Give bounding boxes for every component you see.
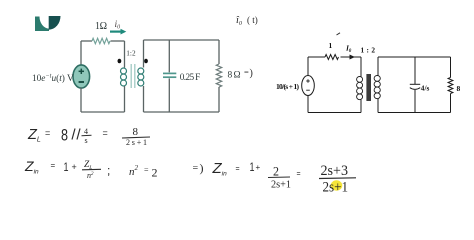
svg-text:0.25 F: 0.25 F bbox=[180, 73, 201, 83]
svg-text:): ) bbox=[250, 68, 253, 79]
svg-text:=: = bbox=[297, 171, 301, 178]
wire: s-right loop bottom bbox=[378, 112, 451, 114]
wire: s-primary top lead bbox=[360, 57, 362, 77]
wire: secondary top lead bbox=[143, 40, 145, 68]
wire: left loop top-right segment bbox=[111, 40, 125, 42]
svg-text:=: = bbox=[103, 128, 108, 138]
svg-text:+: + bbox=[72, 162, 77, 172]
svg-text:4/s: 4/s bbox=[421, 84, 430, 93]
svg-text:I0: I0 bbox=[345, 44, 352, 54]
handwritten parallel bars bbox=[72, 129, 80, 140]
s-transformer core bar bbox=[366, 74, 371, 101]
wire: s-left loop left (upper) bbox=[307, 57, 309, 76]
resistor 1 ohm (left circuit, zigzag) bbox=[92, 38, 110, 43]
current arrow i0 (teal) bbox=[110, 29, 126, 35]
svg-text:Zin: Zin bbox=[212, 160, 228, 178]
wire: primary top lead bbox=[124, 41, 126, 68]
svg-text:1 : 2: 1 : 2 bbox=[361, 46, 376, 55]
svg-text:=: = bbox=[236, 166, 240, 173]
handwritten n^2 = 2 bbox=[129, 164, 158, 180]
svg-text:2: 2 bbox=[152, 166, 158, 180]
wire: secondary bottom lead bbox=[143, 86, 145, 112]
svg-text:4: 4 bbox=[84, 127, 88, 136]
svg-text:8 Ω: 8 Ω bbox=[228, 70, 241, 80]
svg-text:2: 2 bbox=[273, 165, 279, 179]
transformer core bbox=[131, 64, 135, 88]
svg-text:s: s bbox=[85, 136, 88, 145]
svg-text:8: 8 bbox=[457, 84, 461, 93]
capacitor 0.25 F bbox=[163, 73, 176, 77]
wire: s-capacitor branch lower bbox=[414, 90, 416, 113]
svg-text:î0: î0 bbox=[236, 15, 242, 27]
handwritten tick above resistor bbox=[337, 33, 341, 35]
wire: primary bottom lead bbox=[124, 86, 126, 112]
wire: s-left loop top-left segment bbox=[308, 56, 325, 58]
wire: s-primary bottom lead bbox=[360, 100, 362, 113]
s-transformer secondary coil bbox=[374, 76, 380, 99]
svg-text:1 Ω: 1 Ω bbox=[95, 21, 107, 32]
transformer primary coil bbox=[121, 68, 127, 86]
wire: left loop top-left segment bbox=[81, 40, 92, 42]
wire: s-left loop bottom bbox=[308, 112, 361, 114]
svg-text:Zin: Zin bbox=[24, 158, 39, 176]
s-transformer primary coil bbox=[357, 77, 363, 100]
voltage source 10/(s+1) bbox=[302, 76, 315, 96]
svg-text:8: 8 bbox=[61, 126, 68, 145]
wire: right loop top bbox=[144, 39, 220, 41]
svg-text:n2: n2 bbox=[87, 171, 94, 180]
svg-text:2s+1: 2s+1 bbox=[126, 138, 147, 147]
svg-text:+: + bbox=[256, 163, 261, 172]
wire: s-secondary top lead bbox=[377, 57, 379, 76]
svg-text:): ) bbox=[200, 161, 204, 175]
svg-text:;: ; bbox=[107, 164, 110, 178]
wire: s-capacitor branch upper bbox=[414, 57, 416, 84]
wire: right loop right (upper) bbox=[218, 40, 220, 64]
handwritten fraction 2/(2s+1) bbox=[268, 165, 291, 191]
wire: s-right loop right (upper) bbox=[450, 57, 452, 78]
handwritten note i0(t) at top bbox=[236, 15, 258, 27]
svg-text:1: 1 bbox=[250, 160, 255, 174]
yellow highlight on denominator bbox=[331, 180, 343, 190]
svg-text:2s+3: 2s+3 bbox=[321, 163, 349, 179]
svg-text:2s+1: 2s+1 bbox=[323, 179, 349, 195]
svg-text:=: = bbox=[45, 128, 50, 138]
handwritten arrow mark near 8 ohm bbox=[244, 67, 253, 79]
transformer secondary coil bbox=[138, 68, 144, 86]
svg-text:=: = bbox=[51, 161, 56, 170]
dot: primary polarity bbox=[118, 59, 122, 64]
handwritten fraction Z_L/n^2 bbox=[82, 160, 101, 180]
svg-text:8: 8 bbox=[133, 126, 139, 138]
svg-text:i0: i0 bbox=[115, 20, 121, 31]
voltage source 10e^-t u(t) V bbox=[73, 65, 90, 88]
svg-text:2s+1: 2s+1 bbox=[271, 179, 291, 191]
svg-text:ZL: ZL bbox=[27, 127, 41, 144]
svg-text:10e−tu(t) V: 10e−tu(t) V bbox=[32, 73, 74, 84]
wire: capacitor branch upper bbox=[168, 40, 170, 72]
wire: s-left loop top-right with current arrow bbox=[341, 55, 362, 60]
resistor 8 (s-domain, vertical zigzag) bbox=[448, 78, 453, 94]
svg-text:n2: n2 bbox=[129, 164, 139, 178]
svg-text:1: 1 bbox=[64, 160, 69, 174]
wire: left loop bottom bbox=[81, 111, 125, 113]
wire: left loop left side (lower) bbox=[80, 88, 82, 113]
wire: s-right loop right (lower) bbox=[450, 94, 452, 113]
svg-text:( t): ( t) bbox=[247, 15, 258, 25]
wire: left loop left side (upper) bbox=[80, 41, 82, 66]
resistor 1 (s-domain, zigzag) bbox=[325, 55, 339, 60]
wire: capacitor branch lower bbox=[168, 78, 170, 112]
svg-text:=: = bbox=[193, 163, 199, 174]
svg-text:=: = bbox=[144, 166, 149, 175]
wire: right loop bottom bbox=[144, 111, 220, 113]
svg-text:10/(s + 1): 10/(s + 1) bbox=[276, 82, 300, 91]
capacitor 4/s bbox=[410, 84, 420, 89]
wire: right loop right (lower) bbox=[218, 87, 220, 112]
wire: s-secondary bottom lead bbox=[377, 99, 379, 113]
svg-text:=: = bbox=[244, 67, 249, 77]
handwritten implies arrow bbox=[193, 161, 204, 175]
handwritten fraction 4/s bbox=[82, 127, 92, 145]
handwritten fraction 8/(2s+1) bbox=[122, 126, 150, 147]
wire: s-left loop left (lower) bbox=[307, 96, 309, 113]
wire: s-right loop top bbox=[378, 56, 451, 58]
svg-text:1:2: 1:2 bbox=[126, 49, 136, 58]
dot: secondary polarity bbox=[144, 59, 148, 64]
resistor 8 ohm (left circuit, vertical zigzag) bbox=[216, 64, 221, 87]
textbook logo icon bbox=[35, 16, 61, 31]
svg-text:1: 1 bbox=[329, 41, 333, 50]
handwritten fraction (2s+3)/(2s+1) bbox=[319, 163, 356, 195]
